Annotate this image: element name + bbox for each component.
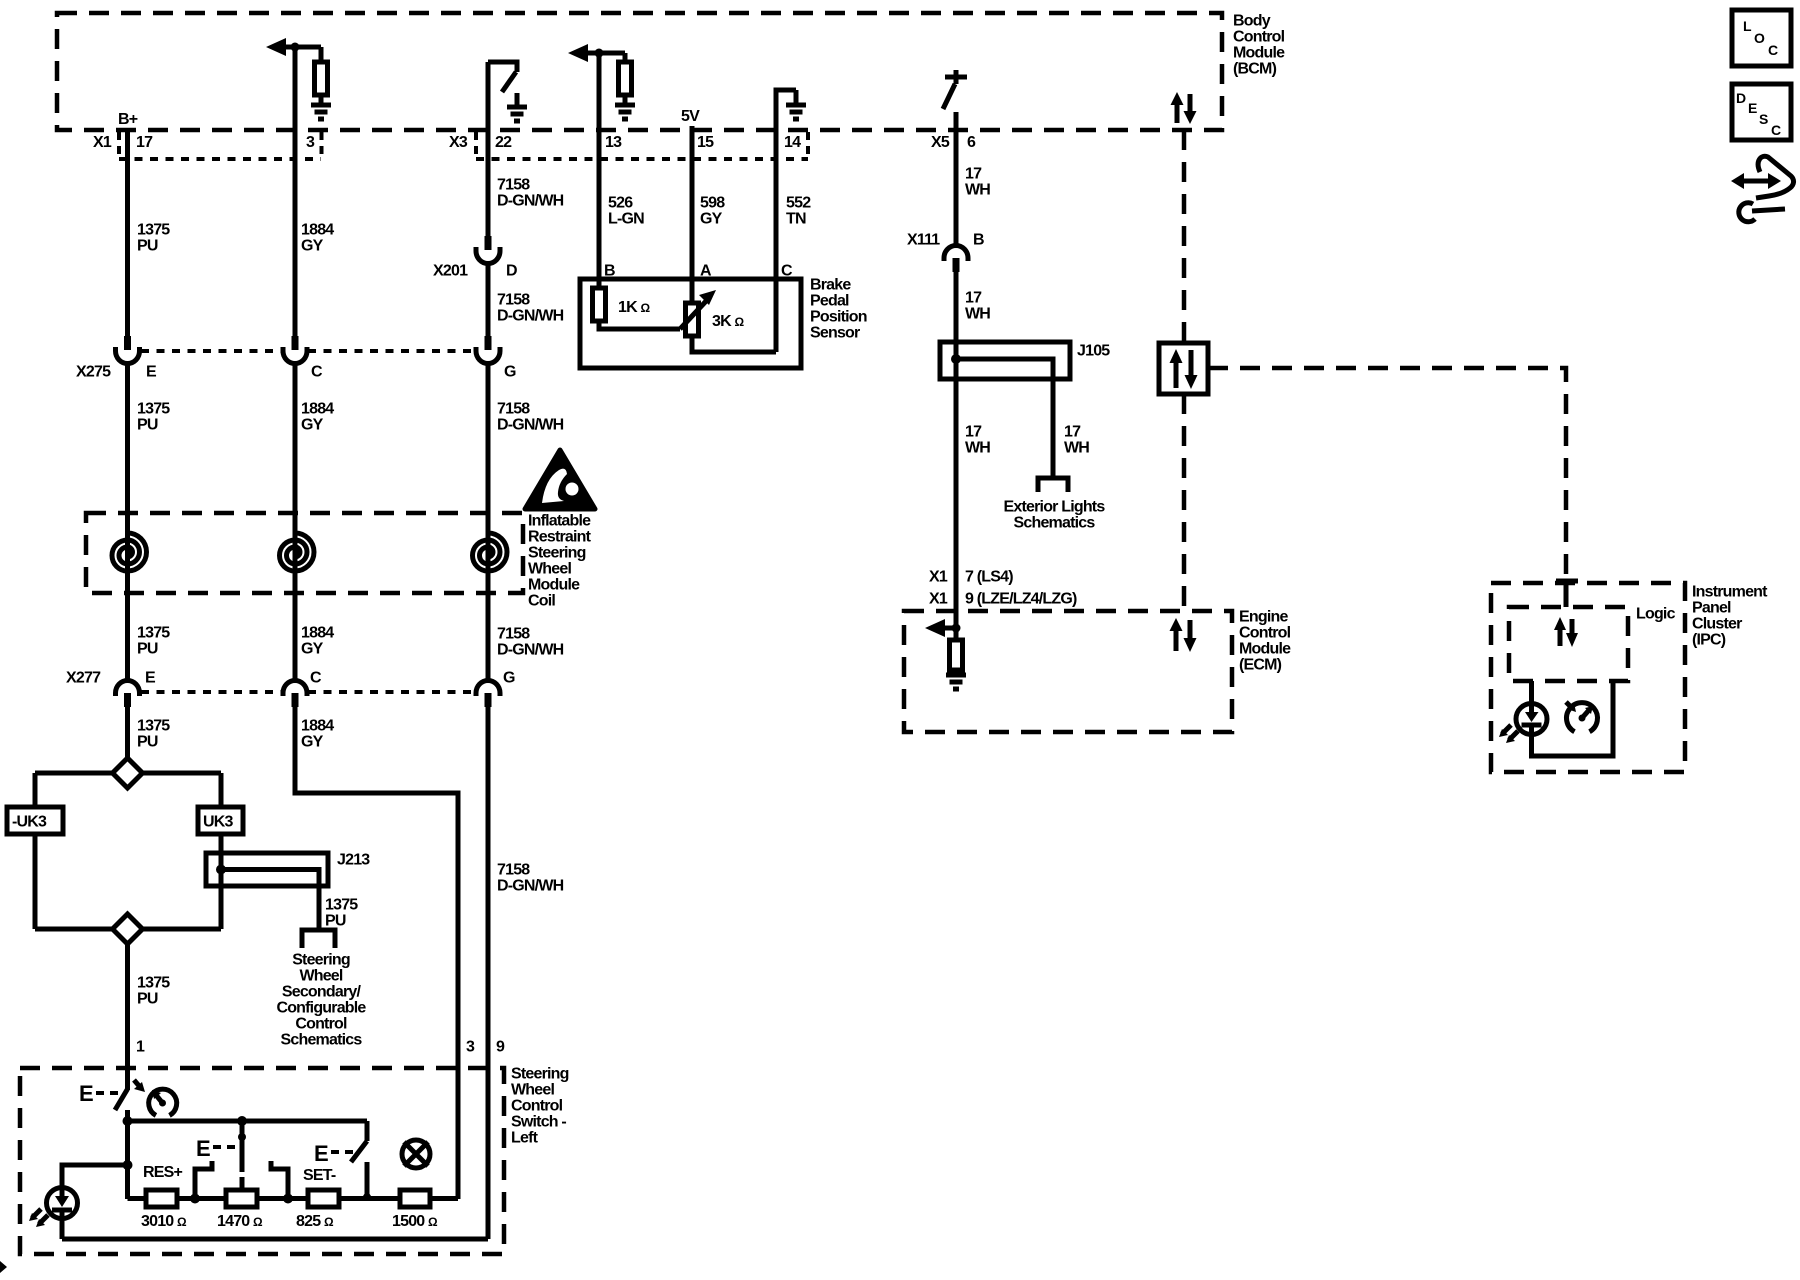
wire 1375 PU from B+ pin 17 down to X275 bbox=[125, 128, 130, 336]
connector X3 row bbox=[449, 132, 808, 159]
Brake Pedal Position Sensor box bbox=[580, 277, 867, 369]
svg-text:C: C bbox=[310, 670, 322, 687]
svg-text:1375: 1375 bbox=[325, 897, 358, 914]
svg-text:E: E bbox=[196, 1136, 211, 1161]
svg-text:C: C bbox=[1768, 42, 1778, 58]
svg-text:B+: B+ bbox=[118, 111, 138, 128]
wire 7158 D-GN/WH pin 22 down to X201 bbox=[486, 62, 491, 236]
svg-text:1500 Ω: 1500 Ω bbox=[392, 1213, 438, 1230]
svg-text:PU: PU bbox=[137, 238, 158, 255]
resistor 3010 bbox=[146, 1190, 177, 1207]
connector X275-G bbox=[476, 336, 500, 364]
svg-text:Switch -: Switch - bbox=[511, 1114, 566, 1131]
label 17 WH (below J105 left) bbox=[965, 424, 990, 457]
svg-text:Control: Control bbox=[511, 1098, 563, 1115]
wire 1884 GY coil to X277 bbox=[293, 593, 298, 682]
junction pin13 top bbox=[595, 49, 604, 58]
data link arrows in Logic bbox=[1554, 617, 1578, 647]
cruise gauge icon (IPC) bbox=[1566, 702, 1597, 732]
svg-text:GY: GY bbox=[700, 211, 723, 228]
label 17 WH (below J105 right) bbox=[1064, 424, 1089, 457]
svg-text:GY: GY bbox=[301, 238, 324, 255]
IPC input connector T bbox=[1556, 581, 1578, 607]
svg-text:L: L bbox=[1743, 18, 1752, 34]
svg-text:1K Ω: 1K Ω bbox=[618, 299, 651, 316]
svg-text:Wheel: Wheel bbox=[299, 968, 342, 985]
wire left branch down bbox=[33, 773, 38, 807]
connector X277 row bbox=[66, 670, 515, 693]
RES+ switch blade bbox=[240, 1121, 245, 1172]
arrow left (ECM internal) bbox=[925, 619, 945, 637]
label 7158 D-GN/WH (below coil col3) bbox=[497, 626, 564, 659]
Steering Wheel Control Switch - Left dashed box bbox=[20, 1066, 569, 1255]
connector X201 D inline bbox=[433, 236, 517, 280]
svg-text:552: 552 bbox=[786, 195, 811, 212]
svg-text:L-GN: L-GN bbox=[608, 211, 644, 228]
airbag warning triangle bbox=[525, 450, 595, 509]
resistor 1470 bbox=[226, 1190, 257, 1207]
svg-text:1375: 1375 bbox=[137, 625, 170, 642]
svg-text:Wheel: Wheel bbox=[528, 561, 571, 578]
svg-text:E: E bbox=[79, 1081, 94, 1106]
svg-text:7158: 7158 bbox=[497, 177, 530, 194]
label X1 9 (LZE/LZ4/LZG) bbox=[929, 591, 1077, 608]
svg-text:1375: 1375 bbox=[137, 718, 170, 735]
connector X277-G bbox=[476, 681, 500, 708]
wire LED bottom bbox=[60, 1218, 65, 1239]
label exterior lights schematics bbox=[1004, 499, 1106, 532]
svg-text:Control: Control bbox=[295, 1016, 347, 1033]
resistor 1K in sensor bbox=[593, 288, 606, 321]
ground (BCM, above pin 13) bbox=[615, 105, 635, 119]
RES+ fixed contact bbox=[195, 1161, 212, 1199]
svg-text:Secondary/: Secondary/ bbox=[282, 984, 362, 1001]
svg-text:7 (LS4): 7 (LS4) bbox=[965, 569, 1013, 586]
svg-text:X277: X277 bbox=[66, 670, 101, 687]
svg-text:Steering: Steering bbox=[292, 952, 350, 969]
svg-text:Coil: Coil bbox=[528, 593, 555, 610]
svg-text:526: 526 bbox=[608, 195, 633, 212]
svg-text:17: 17 bbox=[965, 290, 982, 307]
svg-text:PU: PU bbox=[137, 417, 158, 434]
svg-text:-UK3: -UK3 bbox=[12, 814, 47, 831]
wire 7158 below X201 bbox=[486, 264, 491, 336]
label 7158 D-GN/WH (mid col3) bbox=[497, 401, 564, 434]
svg-text:9 (LZE/LZ4/LZG): 9 (LZE/LZ4/LZG) bbox=[965, 591, 1077, 608]
svg-text:J105: J105 bbox=[1077, 343, 1110, 360]
svg-text:Control: Control bbox=[1239, 625, 1291, 642]
svg-text:14: 14 bbox=[784, 134, 801, 151]
svg-text:D: D bbox=[506, 263, 517, 280]
arrow left (BCM internal) bbox=[266, 38, 286, 56]
wire branch in BCM above pin 3 (horizontal) bbox=[284, 45, 321, 50]
service icon (arrows + wrench) bbox=[1731, 156, 1794, 221]
svg-text:J213: J213 bbox=[337, 852, 370, 869]
wire right branch down bbox=[219, 773, 224, 807]
wire into ECM bbox=[954, 611, 959, 640]
connector X275-E (pin + cup) bbox=[116, 336, 140, 364]
label 1884 GY (below coil col2) bbox=[301, 625, 334, 658]
svg-text:B: B bbox=[604, 263, 615, 280]
switch to ground in BCM above pin 22 bbox=[488, 62, 517, 72]
svg-text:D-GN/WH: D-GN/WH bbox=[497, 642, 564, 659]
label 17 WH (X5) bbox=[965, 166, 990, 199]
svg-text:Body: Body bbox=[1233, 13, 1271, 30]
resistor in BCM above pin 13 bbox=[623, 53, 628, 62]
label 552 TN bbox=[786, 195, 811, 228]
resistor in BCM above pin 3 bbox=[319, 47, 324, 62]
svg-text:7158: 7158 bbox=[497, 862, 530, 879]
junction dot top rail bbox=[123, 1116, 133, 1126]
svg-text:G: G bbox=[504, 364, 516, 381]
wire 1884 GY pin 3 down to X275 bbox=[293, 47, 298, 336]
svg-text:598: 598 bbox=[700, 195, 725, 212]
label 1884 GY (mid col2) bbox=[301, 401, 334, 434]
label 7158 D-GN/WH (below X201) bbox=[497, 292, 564, 325]
wire below on/off switch bbox=[125, 1110, 130, 1199]
wire 7158 coil to X277 bbox=[486, 593, 491, 682]
resistor rail segments bbox=[128, 1196, 147, 1201]
svg-text:X1: X1 bbox=[929, 591, 948, 608]
svg-text:3: 3 bbox=[466, 1039, 475, 1056]
svg-text:Engine: Engine bbox=[1239, 609, 1288, 626]
coil (spiral) on wire C bbox=[280, 533, 315, 571]
svg-text:1884: 1884 bbox=[301, 222, 334, 239]
svg-text:5V: 5V bbox=[681, 108, 700, 125]
bottom return rail bbox=[62, 1237, 488, 1242]
svg-text:E: E bbox=[1748, 100, 1757, 116]
svg-text:UK3: UK3 bbox=[203, 814, 234, 831]
arrow left (BCM internal, pin 13) bbox=[568, 44, 588, 62]
wire branch in BCM above pin 13 (horizontal) bbox=[586, 51, 625, 56]
label 1375 PU (above switch box) bbox=[137, 975, 170, 1008]
label 598 GY bbox=[700, 195, 725, 228]
svg-text:Left: Left bbox=[511, 1130, 539, 1147]
label 1884 GY (top col2) bbox=[301, 222, 334, 255]
connector X111 B inline bbox=[907, 232, 984, 273]
svg-text:X275: X275 bbox=[76, 364, 111, 381]
svg-text:D-GN/WH: D-GN/WH bbox=[497, 193, 564, 210]
fuse -UK3 bbox=[7, 807, 63, 834]
svg-text:PU: PU bbox=[325, 913, 346, 930]
wire pin 14 up to ground elbow bbox=[776, 90, 796, 130]
svg-text:Schematics: Schematics bbox=[281, 1032, 363, 1049]
svg-text:X1: X1 bbox=[93, 134, 112, 151]
fuse UK3 bbox=[198, 807, 243, 834]
wire 7158 X277 down to switch pin 9 bbox=[486, 707, 491, 1239]
IPC indicator circuit box bbox=[1529, 681, 1534, 703]
lamp off symbol bbox=[402, 1140, 430, 1168]
svg-text:Brake: Brake bbox=[810, 277, 851, 294]
wire 7158 X275 to coil bbox=[486, 364, 491, 593]
svg-text:E: E bbox=[146, 364, 157, 381]
label 7158 D-GN/WH (top col3) bbox=[497, 177, 564, 210]
svg-text:E: E bbox=[145, 670, 156, 687]
svg-text:17: 17 bbox=[965, 424, 982, 441]
label 1375 PU (mid col1) bbox=[137, 401, 170, 434]
connector X277-C bbox=[283, 681, 307, 708]
svg-text:1884: 1884 bbox=[301, 401, 334, 418]
wire 1884 GY X275 to coil bbox=[293, 364, 298, 593]
data link arrows in BCM bottom right bbox=[1171, 92, 1197, 124]
ground (BCM, pin 14) bbox=[794, 90, 799, 105]
label 17 WH (above J105) bbox=[965, 290, 990, 323]
svg-text:WH: WH bbox=[965, 182, 990, 199]
svg-text:Schematics: Schematics bbox=[1014, 515, 1096, 532]
dashed data link box to ECM bbox=[1182, 394, 1187, 611]
junction dot LED rail bbox=[123, 1160, 133, 1170]
svg-text:17: 17 bbox=[136, 134, 153, 151]
svg-text:(ECM): (ECM) bbox=[1239, 657, 1282, 674]
svg-text:22: 22 bbox=[495, 134, 512, 151]
label 1375 PU (below coil col1) bbox=[137, 625, 170, 658]
wire 3K bottom to C bbox=[692, 336, 776, 352]
svg-text:17: 17 bbox=[965, 166, 982, 183]
label X1 7 (LS4) bbox=[929, 569, 1013, 586]
svg-text:TN: TN bbox=[786, 211, 806, 228]
svg-text:3K Ω: 3K Ω bbox=[712, 313, 745, 330]
cruise gauge icon (switch) bbox=[149, 1089, 177, 1115]
resistor 1500 bbox=[400, 1190, 430, 1207]
svg-text:X1: X1 bbox=[929, 569, 948, 586]
wire 552 TN pin 14 down into sensor bbox=[774, 130, 779, 352]
svg-text:Configurable: Configurable bbox=[276, 1000, 366, 1017]
svg-text:C: C bbox=[1771, 122, 1781, 138]
junction pin3 top bbox=[291, 43, 300, 52]
svg-text:G: G bbox=[503, 670, 515, 687]
svg-text:PU: PU bbox=[137, 641, 158, 658]
cruise on/off switch blade bbox=[115, 1089, 128, 1110]
svg-text:Inflatable: Inflatable bbox=[528, 513, 591, 530]
svg-text:7158: 7158 bbox=[497, 292, 530, 309]
connector X1 row bbox=[93, 132, 322, 159]
svg-text:Wheel: Wheel bbox=[511, 1082, 554, 1099]
data link arrows in ECM bbox=[1170, 618, 1197, 652]
svg-text:6: 6 bbox=[967, 134, 976, 151]
svg-text:GY: GY bbox=[301, 734, 324, 751]
svg-text:7158: 7158 bbox=[497, 401, 530, 418]
top rail bbox=[128, 1119, 368, 1124]
svg-text:Module: Module bbox=[1233, 45, 1285, 62]
junction (ECM) bbox=[952, 624, 961, 633]
svg-text:C: C bbox=[311, 364, 323, 381]
svg-text:WH: WH bbox=[965, 306, 990, 323]
svg-text:Sensor: Sensor bbox=[810, 325, 860, 342]
svg-text:E: E bbox=[314, 1141, 329, 1166]
svg-text:1375: 1375 bbox=[137, 222, 170, 239]
svg-text:9: 9 bbox=[496, 1039, 505, 1056]
svg-text:Instrument: Instrument bbox=[1692, 584, 1768, 601]
svg-text:1375: 1375 bbox=[137, 975, 170, 992]
label steering wheel secondary schematics bbox=[276, 952, 366, 1049]
svg-text:D-GN/WH: D-GN/WH bbox=[497, 417, 564, 434]
svg-text:Module: Module bbox=[1239, 641, 1291, 658]
resistor 825 bbox=[308, 1190, 339, 1207]
svg-text:Cluster: Cluster bbox=[1692, 616, 1742, 633]
Logic dashed box bbox=[1509, 606, 1676, 682]
coil (spiral) on wire E bbox=[112, 533, 147, 571]
LED illumination (switch) bbox=[29, 1188, 78, 1228]
splice branch top horizontal bbox=[35, 771, 221, 776]
svg-text:1470 Ω: 1470 Ω bbox=[217, 1213, 263, 1230]
junction dot RES+ bbox=[237, 1116, 247, 1126]
svg-text:(IPC): (IPC) bbox=[1692, 632, 1726, 649]
svg-text:Position: Position bbox=[810, 309, 867, 326]
off-page bracket (exterior lights) bbox=[1038, 478, 1068, 492]
wire 1375 PU coil to X277 bbox=[125, 593, 130, 682]
svg-text:PU: PU bbox=[137, 734, 158, 751]
wire 17 WH below X111 bbox=[954, 272, 959, 611]
wire 598 GY pin 15 down into sensor bbox=[690, 126, 695, 303]
svg-text:WH: WH bbox=[965, 440, 990, 457]
svg-text:Pedal: Pedal bbox=[810, 293, 849, 310]
wire 1884 GY X277 down and right to switch pin 3 bbox=[295, 707, 458, 1199]
svg-text:17: 17 bbox=[1064, 424, 1081, 441]
svg-text:D: D bbox=[1736, 90, 1746, 106]
label 1884 GY (below X277) bbox=[301, 718, 334, 751]
actuation arrow to gauge bbox=[134, 1080, 145, 1092]
connector X277-E (cap + pin) bbox=[116, 681, 140, 708]
svg-text:Steering: Steering bbox=[511, 1066, 569, 1083]
svg-text:GY: GY bbox=[301, 417, 324, 434]
wire 17 WH X5 pin 6 down to X111 bbox=[954, 112, 959, 244]
switch in BCM above X5 pin 6 bbox=[943, 70, 967, 109]
SET- branch elbow bbox=[365, 1121, 370, 1141]
svg-text:D-GN/WH: D-GN/WH bbox=[497, 878, 564, 895]
svg-text:13: 13 bbox=[605, 134, 622, 151]
splice branch bottom horizontal bbox=[35, 927, 221, 932]
wire 1K bottom to wiper bbox=[599, 321, 680, 329]
svg-text:A: A bbox=[700, 263, 712, 280]
wire LED top to rail bbox=[62, 1165, 128, 1188]
label 526 L-GN bbox=[608, 195, 644, 228]
svg-text:1884: 1884 bbox=[301, 625, 334, 642]
svg-text:7158: 7158 bbox=[497, 626, 530, 643]
Body Control Module (BCM) dashed box bbox=[57, 13, 1285, 131]
Inflatable Restraint Steering Wheel Module Coil dashed box bbox=[86, 513, 592, 610]
connector X275-C bbox=[283, 336, 307, 364]
label 7158 D-GN/WH (right long wire) bbox=[497, 862, 564, 895]
RES+ contact stub bbox=[240, 1177, 245, 1190]
svg-text:X201: X201 bbox=[433, 263, 468, 280]
splice diamond top bbox=[113, 758, 143, 788]
wire 1375 PU X275 to coil bbox=[125, 364, 130, 593]
splice J213 bbox=[206, 852, 370, 931]
wire below UK3 through J213 bbox=[219, 834, 224, 929]
svg-text:X111: X111 bbox=[907, 232, 940, 249]
svg-text:15: 15 bbox=[697, 134, 714, 151]
svg-text:1375: 1375 bbox=[137, 401, 170, 418]
svg-text:WH: WH bbox=[1064, 440, 1089, 457]
page artifact bottom-left bbox=[0, 1261, 7, 1273]
dashed data link BCM down bbox=[1182, 130, 1187, 343]
splice J105 bbox=[940, 342, 1110, 478]
ground (ECM internal) bbox=[946, 675, 966, 689]
svg-text:3: 3 bbox=[306, 134, 315, 151]
off-page bracket (steering wheel secondary) bbox=[302, 930, 335, 948]
svg-text:1: 1 bbox=[136, 1039, 145, 1056]
junction dot 1470/825 bbox=[283, 1194, 293, 1204]
svg-text:S: S bbox=[1759, 111, 1768, 127]
svg-text:Panel: Panel bbox=[1692, 600, 1731, 617]
splice diamond bottom bbox=[113, 914, 143, 944]
SET- contact bbox=[365, 1162, 370, 1199]
wire to arrow bbox=[942, 626, 956, 631]
Instrument Panel Cluster (IPC) dashed box bbox=[1491, 583, 1768, 772]
svg-text:1884: 1884 bbox=[301, 718, 334, 735]
data link junction box bbox=[1159, 343, 1208, 394]
coil (spiral) on wire G bbox=[472, 533, 507, 571]
wire below -UK3 bbox=[33, 834, 38, 929]
svg-text:D-GN/WH: D-GN/WH bbox=[497, 308, 564, 325]
Engine Control Module (ECM) dashed box bbox=[904, 609, 1291, 733]
wire 1375 PU diamond to switch pin 1 bbox=[125, 944, 130, 1090]
svg-text:Steering: Steering bbox=[528, 545, 586, 562]
svg-text:(BCM): (BCM) bbox=[1233, 61, 1277, 78]
wire 526 L-GN pin 13 down into sensor bbox=[597, 53, 602, 288]
connector X275 row bbox=[76, 351, 516, 381]
svg-text:PU: PU bbox=[137, 991, 158, 1008]
svg-text:Module: Module bbox=[528, 577, 580, 594]
svg-text:SET-: SET- bbox=[303, 1167, 336, 1184]
SET- switch blade bbox=[351, 1141, 367, 1162]
svg-text:Restraint: Restraint bbox=[528, 529, 592, 546]
LED indicator (IPC) bbox=[1499, 704, 1547, 744]
SET- fixed contact bbox=[271, 1161, 288, 1199]
potentiometer 3K bbox=[686, 303, 699, 336]
svg-text:Logic: Logic bbox=[1636, 606, 1676, 623]
svg-text:X5: X5 bbox=[931, 134, 950, 151]
svg-text:X3: X3 bbox=[449, 134, 468, 151]
dashed data link box to IPC bbox=[1208, 368, 1566, 577]
svg-text:B: B bbox=[973, 232, 984, 249]
wire 1375 PU X277 to diamond bbox=[125, 707, 130, 760]
svg-text:3010 Ω: 3010 Ω bbox=[141, 1213, 187, 1230]
label 1375 PU (top col1) bbox=[137, 222, 170, 255]
ground (BCM, above pin 3) bbox=[311, 105, 331, 119]
svg-text:GY: GY bbox=[301, 641, 324, 658]
DESC reference box bbox=[1732, 84, 1791, 140]
svg-text:C: C bbox=[781, 263, 793, 280]
svg-text:Control: Control bbox=[1233, 29, 1285, 46]
label 1375 PU (below X277) bbox=[137, 718, 170, 751]
LOC reference box bbox=[1732, 10, 1791, 66]
wiper arrow through 3K bbox=[680, 299, 708, 329]
svg-text:825 Ω: 825 Ω bbox=[296, 1213, 334, 1230]
svg-text:Exterior Lights: Exterior Lights bbox=[1004, 499, 1106, 516]
label 1375 PU (J213 tap) bbox=[325, 897, 358, 930]
connector X5 row bbox=[931, 134, 976, 151]
svg-text:RES+: RES+ bbox=[143, 1164, 182, 1181]
ground (BCM, above pin 22) bbox=[515, 93, 520, 107]
junction dot 3010/1470 bbox=[190, 1194, 200, 1204]
svg-text:O: O bbox=[1754, 30, 1765, 46]
resistor (ECM internal) bbox=[950, 640, 963, 670]
